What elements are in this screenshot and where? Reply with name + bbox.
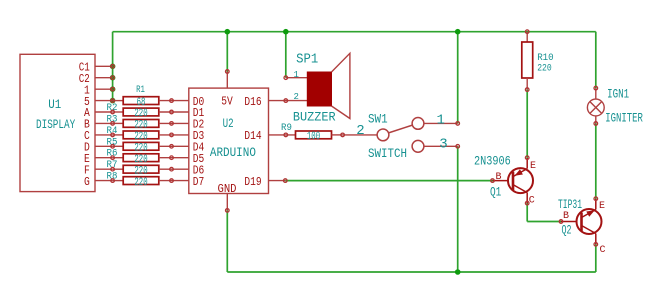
svg-text:E: E: [530, 161, 536, 172]
svg-text:B: B: [496, 172, 502, 183]
svg-text:3: 3: [439, 137, 447, 153]
svg-text:R1: R1: [136, 85, 145, 96]
svg-text:1: 1: [437, 112, 445, 128]
svg-text:Q1: Q1: [490, 185, 501, 200]
svg-text:G: G: [84, 175, 90, 189]
svg-text:220: 220: [134, 108, 147, 120]
svg-text:220: 220: [537, 64, 552, 75]
svg-text:E: E: [599, 201, 605, 212]
svg-text:2: 2: [356, 123, 364, 139]
svg-text:R7: R7: [107, 160, 118, 171]
svg-text:220: 220: [134, 120, 147, 132]
svg-text:R4: R4: [107, 126, 118, 137]
svg-text:R9: R9: [281, 123, 292, 134]
svg-text:220: 220: [134, 165, 147, 177]
svg-text:100: 100: [307, 131, 320, 143]
svg-text:D14: D14: [244, 129, 261, 143]
svg-text:DISPLAY: DISPLAY: [36, 117, 75, 132]
svg-text:R5: R5: [107, 137, 118, 148]
svg-text:220: 220: [134, 131, 147, 143]
svg-text:SW1: SW1: [368, 112, 388, 127]
svg-text:R6: R6: [107, 149, 118, 160]
svg-text:IGNITER: IGNITER: [605, 110, 643, 125]
svg-text:R2: R2: [107, 103, 118, 114]
svg-text:U2: U2: [223, 116, 234, 131]
svg-text:ARDUINO: ARDUINO: [210, 145, 256, 160]
svg-text:D7: D7: [193, 175, 205, 189]
svg-text:TIP31: TIP31: [558, 197, 582, 212]
svg-text:IGN1: IGN1: [607, 86, 629, 101]
svg-text:220: 220: [134, 154, 147, 166]
svg-text:C: C: [600, 245, 606, 256]
svg-text:2N3906: 2N3906: [474, 153, 511, 168]
svg-text:1: 1: [294, 70, 299, 80]
svg-text:220: 220: [134, 177, 147, 189]
svg-text:SP1: SP1: [296, 52, 318, 68]
svg-text:2: 2: [294, 92, 299, 102]
svg-text:68: 68: [137, 97, 146, 109]
svg-text:C: C: [529, 196, 535, 207]
svg-text:B: B: [563, 211, 569, 222]
svg-text:D16: D16: [244, 95, 261, 109]
svg-text:220: 220: [134, 143, 147, 155]
svg-text:5V: 5V: [221, 95, 233, 109]
svg-text:D19: D19: [244, 175, 261, 189]
svg-text:U1: U1: [48, 97, 61, 112]
svg-text:BUZZER: BUZZER: [293, 110, 336, 125]
svg-text:R10: R10: [537, 53, 554, 64]
svg-text:Q2: Q2: [562, 223, 572, 238]
svg-text:SWITCH: SWITCH: [368, 146, 407, 161]
svg-text:R3: R3: [107, 114, 118, 125]
svg-text:R8: R8: [107, 172, 118, 183]
